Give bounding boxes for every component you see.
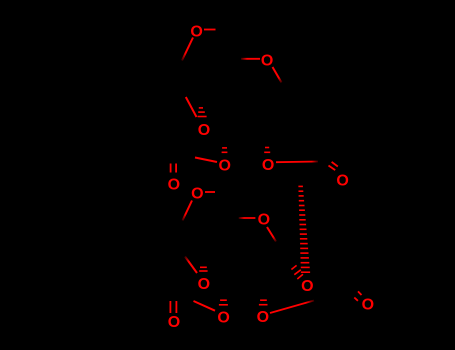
bond C(=O)-O12 (diagonal) [194,301,216,311]
bond C-O10 (left, fading) [239,217,256,219]
hashed stereo bond to O14 (2 ticks) [259,300,268,305]
bond O1-C6 (down-left, fading) [182,38,193,61]
bond O3-C1 (down-right, fading) [273,67,282,83]
svg-text:O: O [257,309,269,326]
bond O6-CH3 (right) [205,191,215,193]
double bond C=O8 (acetyl carbonyl 2) [329,162,338,170]
hashed stereo bond C2-O4 (2 ticks) [222,148,228,152]
bond O6-C (down-left, fading) [183,201,193,221]
hashed bond C4'-O9 (3 diagonal ticks) [291,265,303,279]
svg-text:O: O [301,278,313,295]
svg-text:O: O [198,122,210,139]
svg-text:O: O [258,211,270,228]
double bond C=O13 (acetyl carbonyl 3) [170,301,176,313]
svg-text:O: O [261,53,273,70]
bond C5-O3 (left, fading) [241,58,260,60]
hashed stereo bond C3-O7 (2 ticks) [264,148,270,153]
svg-text:O: O [168,314,180,331]
svg-text:O: O [262,157,274,174]
bond C-C (solid diagonal, lower middle, fading up) [185,257,197,274]
svg-text:O: O [336,172,348,189]
bond O7-C(=O) (long horizontal, fading right) [276,161,318,164]
svg-text:O: O [191,185,203,202]
svg-text:O: O [168,176,180,193]
bond O10-C (down-right, fading) [267,227,276,242]
double bond C=O5 (acetyl carbonyl 1) [171,164,177,173]
svg-text:O: O [218,158,230,175]
svg-text:O: O [198,276,210,293]
double bond C=O15 (acetyl carbonyl 4) [354,291,361,300]
svg-text:O: O [217,309,229,326]
bond C6-C5 (solid diagonal, upper middle) [186,97,197,117]
hashed stereo bond to O12 (2 ticks) [219,300,228,305]
bond O14-C(=O) (long diagonal, fading right) [270,301,314,314]
bond O1-CH3 (right) [204,29,216,31]
svg-text:O: O [362,296,374,313]
bond C(=O)-O4 (shallow diagonal) [195,158,217,163]
hashed stereo bond C4-O2 (3 ticks) [198,108,207,117]
hashed stereo bond to O11 (2 ticks) [199,267,207,271]
hashed glycosidic bond C1-O9 (19 ticks) [298,186,310,272]
